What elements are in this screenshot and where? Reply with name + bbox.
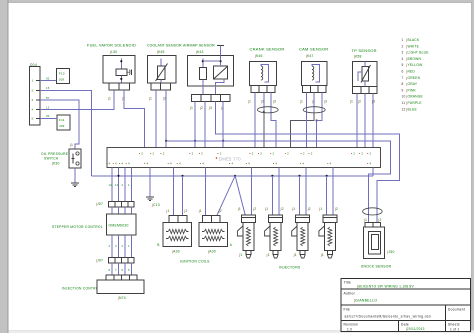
svg-text:2: 2 <box>122 244 124 248</box>
coil 1 windings <box>168 229 187 233</box>
wire V diag to injector 1 pin1 <box>235 176 245 215</box>
solenoid symbol inside L30 <box>120 59 122 70</box>
knock shield ellipse <box>363 208 383 215</box>
svg-text:2: 2 <box>163 152 165 156</box>
wire K58 pin2 down <box>364 93 366 147</box>
svg-text:STEPPER MOTOR CONTROL: STEPPER MOTOR CONTROL <box>52 225 103 229</box>
svg-text:4: 4 <box>402 57 404 61</box>
sensor K43 connector strip <box>192 94 230 101</box>
wire K45 pin2 down to ECU <box>165 90 167 148</box>
svg-text:j2: j2 <box>162 97 166 101</box>
svg-text:OIL PRESSURE: OIL PRESSURE <box>41 152 69 156</box>
wire ECU to injector 3 <box>305 168 307 216</box>
svg-text:4: 4 <box>170 162 172 166</box>
junction dot K43 b <box>219 60 221 62</box>
svg-text:j2: j2 <box>184 209 188 213</box>
wire knock line A (from K43 pin3) <box>216 102 400 223</box>
svg-text:F10: F10 <box>59 72 65 76</box>
junction dot under K47 <box>316 119 318 121</box>
map cell symbol inside K43 <box>214 66 228 79</box>
wire ECU to stepper 3 <box>124 168 126 202</box>
junction dot rail V apex <box>234 175 236 177</box>
svg-text:j1: j1 <box>266 253 270 257</box>
svg-text:1: 1 <box>128 244 130 248</box>
svg-text:12: 12 <box>402 107 406 111</box>
svg-text:jN74: jN74 <box>117 296 126 300</box>
wire K58 pin3 down <box>372 93 374 147</box>
injector 4 coil <box>328 227 332 246</box>
wire K47 shield drain jog <box>291 113 315 148</box>
svg-text:2: 2 <box>32 88 34 92</box>
injector 2 coil <box>274 227 278 246</box>
svg-text:4: 4 <box>147 162 149 166</box>
svg-text:8: 8 <box>402 82 404 86</box>
svg-text:8: 8 <box>109 268 111 272</box>
title block row line 1 <box>341 288 470 290</box>
svg-text:10: 10 <box>402 95 406 99</box>
sensor L30 body <box>103 55 135 83</box>
connector O04 pin 3 <box>36 99 40 101</box>
svg-text:j1: j1 <box>320 253 324 257</box>
resistor symbol inside K43 <box>202 59 204 68</box>
inductor symbol inside K47 <box>312 66 314 80</box>
wire K43 pin4 down <box>222 102 224 148</box>
knock connector strip <box>365 223 381 228</box>
junction dot rail injector 3 <box>298 175 300 177</box>
svg-text:j1: j1 <box>69 143 73 147</box>
svg-text:2: 2 <box>353 152 355 156</box>
wire O04 pin2 feed to +12V rail <box>40 90 92 176</box>
wire O04 pin4 to solenoid L30 pin1 <box>40 90 114 110</box>
svg-text:j1: j1 <box>238 253 242 257</box>
svg-text:CRANK SENSOR: CRANK SENSOR <box>250 47 285 52</box>
bottom light strip <box>8 330 474 333</box>
svg-text:j1: j1 <box>247 100 251 104</box>
svg-text:jC13: jC13 <box>151 203 160 207</box>
wire K46 pin2 down <box>263 92 265 110</box>
left strip shadow edge <box>7 0 9 333</box>
svg-text:j2: j2 <box>307 207 311 211</box>
wire K45 pin1 down to ECU <box>155 90 157 148</box>
wire K30 to ground <box>74 168 76 183</box>
junction dot rail injector 2 <box>271 175 273 177</box>
svg-text:12: 12 <box>46 106 50 110</box>
svg-text:2: 2 <box>311 152 313 156</box>
stepper motor OMEM6030 body <box>107 214 136 235</box>
knock sensor body inner <box>372 235 379 250</box>
svg-text:j20/11/2013: j20/11/2013 <box>405 327 425 331</box>
svg-text:6: 6 <box>402 70 404 74</box>
wire +12V rail <box>92 175 374 177</box>
svg-text:j2: j2 <box>334 207 338 211</box>
wire rail to injector 3 <box>299 176 301 215</box>
svg-text:TP SENSOR: TP SENSOR <box>352 48 377 53</box>
wire K47 pin2 into shield <box>313 92 315 113</box>
svg-text:jPINK: jPINK <box>406 88 417 92</box>
svg-text:jK45: jK45 <box>156 50 165 54</box>
wire rail to injector 2 <box>271 176 273 215</box>
svg-text:j2: j2 <box>280 207 284 211</box>
wire K43 pin2 down <box>204 102 206 148</box>
svg-text:2: 2 <box>287 152 289 156</box>
svg-text:3: 3 <box>402 51 404 55</box>
junction dot K43 pin4 / ground bus <box>222 140 224 142</box>
svg-text:j1: j1 <box>189 106 193 110</box>
injector 1 body <box>241 215 255 223</box>
svg-text:2: 2 <box>192 152 194 156</box>
inductor symbol inside K46 <box>261 66 263 80</box>
svg-text:5: 5 <box>128 268 130 272</box>
sensor K46 connector strip <box>251 86 275 93</box>
thermistor symbol inside K45 <box>160 59 162 67</box>
svg-text:4: 4 <box>128 162 130 166</box>
svg-text:87: 87 <box>46 96 50 100</box>
svg-text:jBLACK: jBLACK <box>406 38 420 42</box>
svg-text:30: 30 <box>46 114 50 118</box>
svg-text:Title: Title <box>344 281 352 285</box>
svg-text:jA30: jA30 <box>207 250 216 254</box>
fuse box F10 (top) <box>57 68 70 83</box>
svg-text:9: 9 <box>402 88 404 92</box>
svg-text:j1: j1 <box>264 207 268 211</box>
svg-text:jSEICENTO SPI WIRING 1.108 8V: jSEICENTO SPI WIRING 1.108 8V <box>356 284 414 288</box>
svg-text:2: 2 <box>370 152 372 156</box>
svg-text:4: 4 <box>232 162 234 166</box>
wire ECU to injector 4 <box>332 168 334 216</box>
junction dot rail / coil A feed <box>181 175 183 177</box>
sensor K58 body <box>353 62 377 87</box>
svg-text:DME5 770: DME5 770 <box>219 157 241 162</box>
svg-text:j3: j3 <box>323 100 327 104</box>
sensor K43 body <box>187 55 233 86</box>
wire ECU to stepper 1 <box>111 168 113 202</box>
ignition coil 1 body <box>163 222 192 246</box>
svg-text:2: 2 <box>153 152 155 156</box>
sensor K46 body <box>250 62 277 86</box>
wire ECU to injector 2 <box>278 168 280 216</box>
svg-text:FUEL VAPOR SOLENOID: FUEL VAPOR SOLENOID <box>87 44 136 48</box>
switch K30 body <box>69 149 81 168</box>
svg-text:4: 4 <box>122 162 124 166</box>
wire K47 pin3 jog <box>317 118 322 121</box>
injector 3 coil <box>301 227 305 246</box>
title block col line file/document <box>445 305 447 331</box>
svg-text:j3: j3 <box>272 100 276 104</box>
svg-text:j1: j1 <box>318 207 322 211</box>
svg-text:J08: J08 <box>59 78 65 82</box>
svg-text:j1: j1 <box>293 253 297 257</box>
svg-text:j3: j3 <box>208 106 212 110</box>
title block outer frame <box>341 278 470 331</box>
svg-text:jL30: jL30 <box>109 50 117 54</box>
svg-text:j1: j1 <box>299 100 303 104</box>
svg-text:5: 5 <box>32 116 34 120</box>
svg-text:4: 4 <box>248 162 250 166</box>
coil 1 connector strip <box>169 216 187 223</box>
svg-text:jJ50: jJ50 <box>387 250 395 254</box>
injector 2 body <box>269 215 283 223</box>
title block row line 3 <box>341 319 470 321</box>
svg-text:4: 4 <box>115 162 117 166</box>
connector O04 body <box>30 67 40 125</box>
wire ECU to coil 2 pin1 <box>205 168 207 216</box>
svg-text:Document: Document <box>448 307 465 311</box>
coil 2 connector strip <box>202 216 220 223</box>
potentiometer symbol inside K58 <box>362 67 369 82</box>
power bar above K43 <box>217 45 224 47</box>
svg-text:4: 4 <box>179 162 181 166</box>
svg-text:2: 2 <box>122 183 124 187</box>
wire K46 pin1 down <box>254 92 256 147</box>
svg-text:jK46: jK46 <box>254 54 263 58</box>
wire K46 pin3 jog <box>271 114 276 148</box>
svg-text:jORANGE: jORANGE <box>406 95 424 99</box>
knock sensor body outer <box>364 227 385 259</box>
svg-text:j1: j1 <box>166 209 170 213</box>
svg-text:INJECTORS: INJECTORS <box>279 266 301 270</box>
junction dot L30 top <box>120 60 122 62</box>
wire ECU to ground C13 <box>149 168 151 198</box>
ground below K30 <box>71 182 79 184</box>
sensor K45 connector strip <box>151 83 171 90</box>
svg-text:Author: Author <box>344 291 356 295</box>
wire K47 pin3 down <box>321 92 323 118</box>
svg-text:Sheets: Sheets <box>448 322 460 326</box>
svg-text:jPURPLE: jPURPLE <box>406 101 423 105</box>
injector 4 body <box>323 215 337 223</box>
svg-text:15: 15 <box>46 86 50 90</box>
svg-text:2: 2 <box>361 152 363 156</box>
svg-text:jBROWN: jBROWN <box>406 57 422 61</box>
connector J07 upper <box>109 202 134 208</box>
svg-text:4: 4 <box>302 162 304 166</box>
sensor K47 connector strip <box>303 86 326 93</box>
svg-text:4: 4 <box>202 162 204 166</box>
wire O04 pin5 to fuse F11 <box>40 117 57 119</box>
junction dot K45 pin2 / ground bus <box>165 140 167 142</box>
wire rail right drop <box>372 168 374 176</box>
wire ECU to injector 1 <box>251 168 253 216</box>
wire rail to coil A pin2 <box>182 176 184 216</box>
fuse box F11 (bottom) <box>57 115 70 130</box>
connector O04 pin 4 <box>36 109 40 111</box>
wire ECU to coil 1 pin1 <box>173 168 175 216</box>
svg-text:30: 30 <box>46 76 50 80</box>
wire O04 pin3 to switch K30 <box>40 100 79 149</box>
shield ellipse under K47 <box>303 107 325 113</box>
svg-text:1: 1 <box>402 38 404 42</box>
svg-text:7: 7 <box>115 268 117 272</box>
svg-text:10: 10 <box>115 183 119 187</box>
wire K43 internal top <box>203 60 221 62</box>
junction dot K43 a <box>202 60 204 62</box>
svg-text:12: 12 <box>109 183 113 187</box>
svg-text:1: 1 <box>128 183 130 187</box>
wire K47 pin1 down <box>305 92 307 147</box>
svg-text:1: 1 <box>32 79 34 83</box>
N74 top connector <box>106 275 137 280</box>
wire ECU to stepper 2 <box>118 168 120 202</box>
ECU U1 body <box>107 148 381 168</box>
svg-text:IGNITION COILS: IGNITION COILS <box>180 260 210 264</box>
svg-text:SWITCH: SWITCH <box>44 157 59 161</box>
svg-text:7: 7 <box>402 76 404 80</box>
ground C13 <box>146 196 154 198</box>
knock sensor body middle <box>369 232 381 255</box>
svg-text:j2: j2 <box>252 207 256 211</box>
svg-text:2: 2 <box>252 152 254 156</box>
svg-text:jK47: jK47 <box>305 54 314 58</box>
injection ECU N74 body <box>97 280 144 294</box>
wires OMEM to J07 lower <box>111 235 113 258</box>
svg-text:j1: j1 <box>363 218 367 222</box>
junction dot K43 pin1 / ground bus <box>194 140 196 142</box>
wire rail to injector 4 <box>326 176 328 215</box>
svg-text:3: 3 <box>115 244 117 248</box>
shield ellipse under K46 <box>257 107 278 113</box>
svg-text:jGREEN: jGREEN <box>406 76 421 80</box>
svg-text:jA30: jA30 <box>171 250 180 254</box>
wire K46 shield drain down <box>263 110 265 148</box>
sensor K45 body <box>147 55 176 83</box>
ignition coil 2 body <box>199 222 228 246</box>
svg-text:KNOCK SENSOR: KNOCK SENSOR <box>361 265 392 269</box>
svg-text:j2: j2 <box>378 218 382 222</box>
connector O04 pin 5 <box>36 117 40 119</box>
wire O04 pin1 to fuse F10 <box>40 80 56 82</box>
junction dot L30 bottom <box>120 78 122 80</box>
svg-text:2: 2 <box>303 152 305 156</box>
svg-text:4: 4 <box>32 108 34 112</box>
wire ground bus / knock line B <box>166 141 391 223</box>
svg-text:jJ07: jJ07 <box>95 202 103 206</box>
injector 1 coil <box>246 227 250 246</box>
coil 2 windings <box>204 229 223 233</box>
svg-text:2: 2 <box>141 152 143 156</box>
wire K43 pin1 down <box>194 102 196 148</box>
wires J07 to OMEM <box>111 207 113 214</box>
svg-text:jBLUE: jBLUE <box>406 107 418 111</box>
svg-text:j1: j1 <box>237 207 241 211</box>
svg-text:j1: j1 <box>349 100 353 104</box>
svg-text:2: 2 <box>273 152 275 156</box>
svg-text:jYELLOW: jYELLOW <box>406 63 424 67</box>
svg-text:j2: j2 <box>199 106 203 110</box>
svg-text:2: 2 <box>220 152 222 156</box>
svg-text:F11: F11 <box>59 118 65 122</box>
connector J07 lower <box>109 258 134 264</box>
sensor K47 body <box>302 62 327 86</box>
connector O04 pin 1 <box>36 80 40 82</box>
wire K47 pin3 drop <box>316 121 318 148</box>
svg-text:COOLANT SENSOR: COOLANT SENSOR <box>147 44 182 48</box>
svg-text:2: 2 <box>201 152 203 156</box>
wire L30 pin2 down to ECU <box>124 90 145 148</box>
svg-text:2: 2 <box>260 152 262 156</box>
junction dot rail / stepper wire <box>117 175 119 177</box>
title block col line date <box>397 320 399 331</box>
svg-text:j2: j2 <box>218 209 222 213</box>
svg-text:j1: j1 <box>291 207 295 211</box>
svg-text:jK30: jK30 <box>51 162 60 166</box>
wire ECU to stepper 4 <box>131 168 133 202</box>
svg-text:11: 11 <box>402 101 406 105</box>
svg-text:j1: j1 <box>198 209 202 213</box>
svg-text:4: 4 <box>109 244 111 248</box>
svg-text:jK43: jK43 <box>195 50 204 54</box>
svg-text:jLIGHT BLUE: jLIGHT BLUE <box>406 51 430 55</box>
sensor L30 connector strip <box>109 83 130 90</box>
wire V diag to coil B pin2 <box>217 176 235 216</box>
svg-text:jRED: jRED <box>406 70 416 74</box>
svg-text:4: 4 <box>109 162 111 166</box>
sensor K58 connector strip <box>353 87 377 94</box>
connector O04 pin 2 <box>36 89 40 91</box>
svg-text:jJ07: jJ07 <box>95 259 103 263</box>
svg-text:CAM SENSOR: CAM SENSOR <box>299 47 328 52</box>
svg-text:4: 4 <box>330 162 332 166</box>
svg-text:jGRAY: jGRAY <box>406 82 418 86</box>
svg-text:6: 6 <box>122 268 124 272</box>
svg-text:3: 3 <box>32 98 34 102</box>
title block row line 2 <box>341 304 470 306</box>
svg-text:jWHITE: jWHITE <box>406 44 420 48</box>
junction dot under K46 <box>263 111 265 113</box>
svg-text:AIRMAP SENSOR: AIRMAP SENSOR <box>183 44 215 48</box>
svg-text:4: 4 <box>370 162 372 166</box>
svg-text:asfcc/?/DocumentsM/Seicento_sr: asfcc/?/DocumentsM/Seicento_srhav_wiring… <box>345 314 432 318</box>
svg-text:j2: j2 <box>357 100 361 104</box>
svg-text:jK58: jK58 <box>353 55 362 59</box>
svg-text:Revision: Revision <box>344 322 359 326</box>
wire K58 pin1 down <box>356 93 358 147</box>
wires J07 lower to N74 <box>111 263 113 275</box>
svg-text:OMEM6030: OMEM6030 <box>109 224 129 228</box>
wire K46 pin3 down <box>270 92 272 114</box>
svg-text:j1: j1 <box>107 97 111 101</box>
svg-text:4: 4 <box>275 162 277 166</box>
injector 3 body <box>296 215 310 223</box>
ECU model text <box>216 157 218 159</box>
svg-text:2: 2 <box>402 44 404 48</box>
svg-text:5: 5 <box>402 63 404 67</box>
svg-text:j1: j1 <box>148 97 152 101</box>
svg-text:1 of 1: 1 of 1 <box>450 328 459 332</box>
svg-text:1.0: 1.0 <box>347 328 352 332</box>
svg-text:B: B <box>157 243 159 247</box>
svg-text:File: File <box>344 307 350 311</box>
svg-text:J09: J09 <box>59 124 65 128</box>
junction dot rail injector 4 <box>326 175 328 177</box>
svg-text:Date: Date <box>401 322 409 326</box>
svg-text:jGIANBELLO: jGIANBELLO <box>353 299 377 303</box>
